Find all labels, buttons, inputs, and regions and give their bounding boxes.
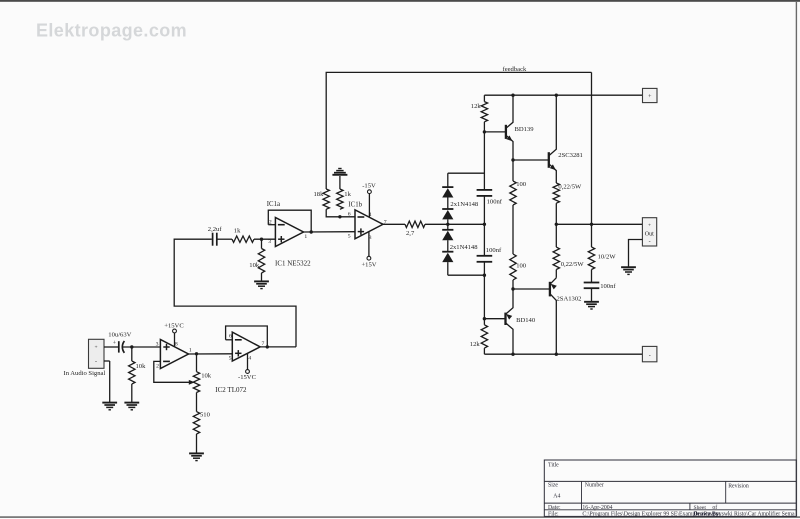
ground for Out: [621, 266, 636, 268]
wire 2SC3281 base: [513, 159, 549, 161]
svg-text:12k: 12k: [470, 341, 481, 348]
svg-text:10k: 10k: [136, 363, 147, 370]
wire output line: [556, 223, 642, 225]
svg-text:4: 4: [248, 355, 251, 361]
node junction Q2 emitter: [511, 287, 514, 290]
svg-text:2x1N4148: 2x1N4148: [450, 244, 479, 251]
node junction rail BD140: [511, 353, 514, 356]
wire R7 to ground above: [339, 176, 341, 189]
svg-text:+: +: [94, 345, 97, 351]
ground for R2: [124, 402, 139, 404]
svg-text:7: 7: [261, 341, 264, 347]
IC1a minus input sign: [278, 224, 285, 226]
title block col line sheet: [689, 503, 691, 510]
IC1b -15V terminal circle: [368, 190, 372, 194]
Q1 collector wire: [506, 95, 513, 128]
svg-text:10k: 10k: [201, 372, 212, 379]
node junction bias bottom: [483, 274, 486, 277]
wire IC1b out to R8: [383, 223, 405, 225]
connector V+ box: [643, 88, 658, 102]
svg-text:510: 510: [200, 411, 211, 418]
transistor Q3 2SC3281 bar: [548, 152, 550, 168]
svg-text:2: 2: [269, 219, 272, 225]
Q4 emitter wire: [550, 278, 556, 285]
IC2a minus input sign: [163, 360, 170, 362]
svg-text:5: 5: [348, 234, 351, 240]
wire R1 to IC1a pin3: [254, 238, 275, 240]
wire output to R15: [591, 224, 593, 247]
svg-text:1: 1: [189, 347, 192, 353]
wire C4 to IC2a pin3: [123, 346, 160, 348]
Q3 collector wire: [549, 95, 557, 156]
op-amp IC1a triangle: [275, 218, 303, 247]
svg-text:-15VC: -15VC: [238, 374, 257, 381]
svg-text:10u/63V: 10u/63V: [108, 332, 131, 339]
connector J1 In Audio Signal box: [89, 339, 105, 368]
node junction cap mid: [483, 223, 486, 226]
wire diode top connector: [448, 172, 485, 174]
svg-text:12k: 12k: [471, 103, 482, 110]
wire 2SA1302 base: [513, 288, 550, 290]
wire diode column top: [447, 173, 449, 187]
wire R10 to R11: [512, 205, 514, 254]
wire positive rail: [484, 94, 642, 96]
wire D3-D4: [447, 240, 449, 252]
svg-text:10/2W: 10/2W: [598, 253, 617, 260]
svg-text:of: of: [712, 504, 717, 511]
connector Out box: [642, 218, 656, 246]
svg-text:Size: Size: [548, 483, 558, 489]
svg-text:2SA1302: 2SA1302: [557, 295, 582, 302]
wire IC2a pin2 feedback loop: [154, 361, 191, 382]
svg-text:8: 8: [175, 341, 178, 347]
svg-text:IC1b: IC1b: [348, 201, 362, 208]
diode D3 1N4148: [442, 229, 453, 231]
svg-text:2,2uf: 2,2uf: [208, 226, 223, 233]
svg-text:+: +: [648, 222, 651, 228]
node junction rail BD139: [511, 94, 514, 97]
op-amp IC2a triangle: [160, 340, 188, 369]
svg-text:C:\Program Files\Design Explor: C:\Program Files\Design Explorer 99 SE\E…: [582, 511, 795, 518]
IC2b pin4 -15VC stem: [247, 354, 249, 370]
wire J1+ to C4: [104, 346, 118, 348]
Q2 emitter arrow: [506, 314, 512, 320]
wire diode column upper mid: [447, 219, 449, 224]
node junction rail 2SC3281: [555, 94, 558, 97]
wire 10k R2 top: [131, 347, 133, 361]
svg-text:IC1a: IC1a: [267, 201, 280, 208]
svg-text:Elektropage.com: Elektropage.com: [36, 21, 187, 41]
resistor R11 100 lower: [510, 254, 516, 280]
node junction BD140 base: [483, 317, 486, 320]
diode D1 1N4148: [442, 186, 453, 188]
resistor R2 10k input bias: [129, 361, 135, 384]
transistor Q4 2SA1302 bar: [549, 282, 551, 297]
svg-text:Date:: Date:: [548, 505, 561, 511]
title block col line revision: [725, 481, 727, 503]
resistor R9 12k upper: [481, 102, 487, 122]
title block row line 1: [544, 480, 796, 482]
wire R4 top: [196, 354, 198, 372]
svg-text:IC1 NE5322: IC1 NE5322: [275, 260, 311, 268]
title block row line 2: [544, 502, 796, 504]
IC2a pin8 +15VC stem: [174, 333, 176, 347]
capacitor C1 2,2uf plates: [212, 233, 214, 246]
transistor Q2 BD140 bar: [504, 313, 506, 325]
svg-text:+15VC: +15VC: [164, 322, 184, 329]
svg-text:+: +: [113, 341, 117, 347]
svg-text:In Audio Signal: In Audio Signal: [64, 370, 106, 377]
resistor R5 510: [193, 412, 199, 434]
resistor R14 12k lower: [481, 325, 487, 348]
svg-text:Drawn By:: Drawn By:: [694, 512, 721, 518]
svg-text:6: 6: [229, 334, 232, 340]
connector V- box: [642, 346, 657, 361]
IC2a +15VC terminal circle: [173, 329, 177, 333]
op-amp IC1b triangle: [355, 210, 383, 239]
wire R9 to BD139 base node: [483, 122, 485, 132]
IC2b plus input sign: [235, 352, 241, 354]
wire rail corner to R9: [483, 95, 485, 101]
wire diode column lower mid: [447, 224, 449, 230]
wire bias column lower: [483, 275, 485, 319]
svg-text:2SC3281: 2SC3281: [558, 152, 583, 159]
svg-text:Number: Number: [585, 483, 604, 489]
page right border: [796, 1, 797, 517]
svg-text:+15V: +15V: [361, 261, 376, 268]
IC2b minus input sign: [235, 339, 242, 341]
resistor R1 1k horizontal: [232, 236, 254, 242]
Q4 emitter arrow: [551, 284, 557, 290]
ground above R7 inverted: [332, 174, 347, 176]
wire feedback net top: [326, 72, 591, 189]
svg-text:Revision: Revision: [728, 483, 749, 489]
wire BD139 base: [484, 131, 506, 133]
wire R5 to ground: [196, 434, 198, 453]
svg-text:1: 1: [304, 234, 307, 240]
wire IC2a out to IC2b: [189, 353, 233, 355]
resistor R15 10/2W: [588, 247, 594, 270]
wire BD140 base: [484, 318, 505, 320]
svg-text:BD139: BD139: [515, 126, 535, 133]
wire Out minus to ground: [629, 240, 643, 268]
IC1b +15V terminal circle: [367, 256, 371, 260]
Q2 emitter wire: [506, 289, 514, 314]
capacitor C4 10u/63V plates: [118, 341, 120, 352]
node junction IC1a pin3: [260, 238, 263, 241]
wire output to R13: [555, 224, 557, 247]
node junction Q1 emitter: [511, 158, 514, 161]
IC1a pin2 stub: [268, 224, 275, 226]
svg-text:3: 3: [268, 239, 271, 245]
wire signal node to C3: [483, 224, 485, 256]
svg-text:100: 100: [516, 263, 527, 270]
wire R11 to Q2 emitter node: [512, 280, 514, 289]
svg-text:100nf: 100nf: [487, 199, 503, 206]
svg-text:6: 6: [348, 211, 351, 217]
svg-text:Out: Out: [645, 231, 654, 237]
node junction rail 2SA1302: [555, 353, 558, 356]
Q4 collector wire: [550, 294, 556, 355]
ground for J1: [102, 402, 117, 404]
IC1b plus input sign: [358, 231, 364, 233]
Q1 emitter arrow: [506, 136, 512, 142]
IC2a plus input sign: [163, 346, 169, 348]
resistor R6 18k: [323, 189, 329, 209]
diode D4 1N4148: [442, 251, 453, 253]
svg-text:Title: Title: [548, 463, 559, 469]
svg-text:BD140: BD140: [516, 317, 536, 324]
wire BD140 base to R14: [483, 319, 485, 325]
page top border: [0, 0, 800, 2]
svg-text:-: -: [649, 239, 651, 245]
wire Q1e to R10: [512, 160, 514, 181]
svg-text:A4: A4: [553, 494, 560, 500]
wire R3 to ground: [261, 273, 263, 281]
node junction diode mid: [446, 223, 449, 226]
svg-text:5: 5: [229, 355, 232, 361]
svg-text:Sheet: Sheet: [694, 505, 707, 511]
wire IC1a output to IC1b pin5: [304, 231, 356, 233]
resistor R4 10k trimmer: [193, 372, 199, 393]
IC1a feedback box wire: [268, 210, 311, 232]
capacitor C3 100nf lower plates: [477, 255, 493, 257]
resistor R12 0,22/5W upper: [553, 183, 559, 203]
capacitor C2 100nf upper plates: [477, 189, 493, 191]
node junction output R12: [555, 223, 558, 226]
svg-text:2,7: 2,7: [406, 230, 415, 237]
wire feedback vertical drop: [591, 72, 593, 224]
wire R4 to R5: [196, 393, 198, 412]
wire R12 to output node: [555, 203, 557, 224]
svg-text:100: 100: [516, 181, 527, 188]
node junction IC2b output: [266, 345, 269, 348]
wire D1-D2: [447, 198, 449, 210]
IC1b pin8 +15V stem: [368, 232, 370, 256]
svg-text:100nf: 100nf: [486, 247, 502, 254]
wire IC2b output: [260, 346, 296, 348]
svg-text:100nf: 100nf: [600, 283, 616, 290]
resistor R8 2,7 horizontal: [405, 221, 425, 227]
trimmer wiper arrow into R4: [189, 380, 195, 385]
resistor R10 100 upper: [510, 181, 516, 205]
node junction BD139 base: [483, 130, 486, 133]
title block col line size-number: [581, 481, 583, 509]
wire C2 to signal node: [483, 196, 485, 224]
node junction 1k-18k: [338, 215, 341, 218]
svg-text:0,22/5W: 0,22/5W: [558, 184, 582, 191]
svg-text:1k: 1k: [234, 228, 241, 235]
wire C1 to R1: [217, 238, 232, 240]
node junction input bias: [130, 345, 133, 348]
wire R15 to C5: [591, 270, 593, 283]
svg-text:feedback: feedback: [503, 66, 527, 73]
title block outer rect: [544, 460, 796, 516]
svg-text:18k: 18k: [314, 191, 325, 198]
svg-text:-: -: [649, 353, 651, 359]
IC2b -15VC terminal circle: [246, 370, 250, 374]
wire bias column upper: [483, 132, 485, 190]
IC1a plus input sign: [278, 238, 284, 240]
svg-text:1k: 1k: [344, 191, 351, 198]
wire J1- stub: [104, 360, 110, 362]
Q2 collector wire: [506, 323, 514, 354]
ground for C5: [584, 301, 599, 303]
wire diode bottom connector: [448, 274, 485, 276]
wire signal to cap column: [448, 223, 485, 225]
svg-text:2x1N4148: 2x1N4148: [450, 201, 479, 208]
svg-text:-15V: -15V: [362, 183, 376, 190]
ground for R3: [254, 280, 269, 282]
page bottom border: [0, 516, 800, 518]
svg-text:16-Apr-2004: 16-Apr-2004: [582, 505, 612, 511]
svg-text:10k: 10k: [249, 262, 260, 269]
IC2b pin6 stub: [226, 339, 233, 341]
wire C3 to bottom connector: [483, 262, 485, 275]
node junction output feedback: [590, 223, 593, 226]
capacitor C5 100nf plates: [584, 282, 600, 284]
IC2b feedback box wire: [226, 326, 268, 347]
node junction IC1a output: [310, 230, 313, 233]
resistor R3 10k to ground: [258, 249, 264, 274]
wire R13 to Q4 emitter: [555, 270, 557, 278]
title block row line 3: [544, 509, 796, 511]
wire R6 to IC1b pin6: [326, 209, 355, 217]
svg-text:IC2 TL072: IC2 TL072: [215, 386, 247, 394]
Q3 emitter arrow: [550, 164, 556, 170]
resistor R7 1k: [337, 189, 343, 209]
wire R3 top: [261, 239, 263, 248]
svg-text:0,22/5W: 0,22/5W: [561, 261, 585, 268]
node junction IC2a output: [195, 352, 198, 355]
wire R14 to negative rail: [483, 348, 485, 354]
wire R8 to diode network: [425, 223, 448, 225]
svg-text:2: 2: [156, 363, 159, 369]
ground for R5: [189, 452, 204, 454]
IC1b minus input sign: [358, 216, 365, 218]
wire R2 to ground: [131, 384, 133, 403]
op-amp IC2b triangle: [232, 332, 260, 361]
svg-text:File:: File:: [548, 512, 559, 518]
wire C5 to ground: [591, 288, 593, 302]
Q3 emitter wire: [549, 164, 557, 183]
Q1 emitter wire: [506, 135, 513, 160]
svg-text:-: -: [95, 360, 97, 366]
transistor Q1 BD139 bar: [505, 125, 507, 139]
diode D2 1N4148: [442, 208, 453, 210]
wire negative rail: [484, 353, 642, 355]
wire IC2b out up-and-left to C1: [174, 239, 296, 347]
svg-text:3: 3: [156, 342, 159, 348]
IC1b pin4 -15V stem: [368, 194, 370, 218]
resistor R13 0,22/5W lower: [553, 247, 559, 269]
wire diode column bottom: [447, 262, 449, 275]
